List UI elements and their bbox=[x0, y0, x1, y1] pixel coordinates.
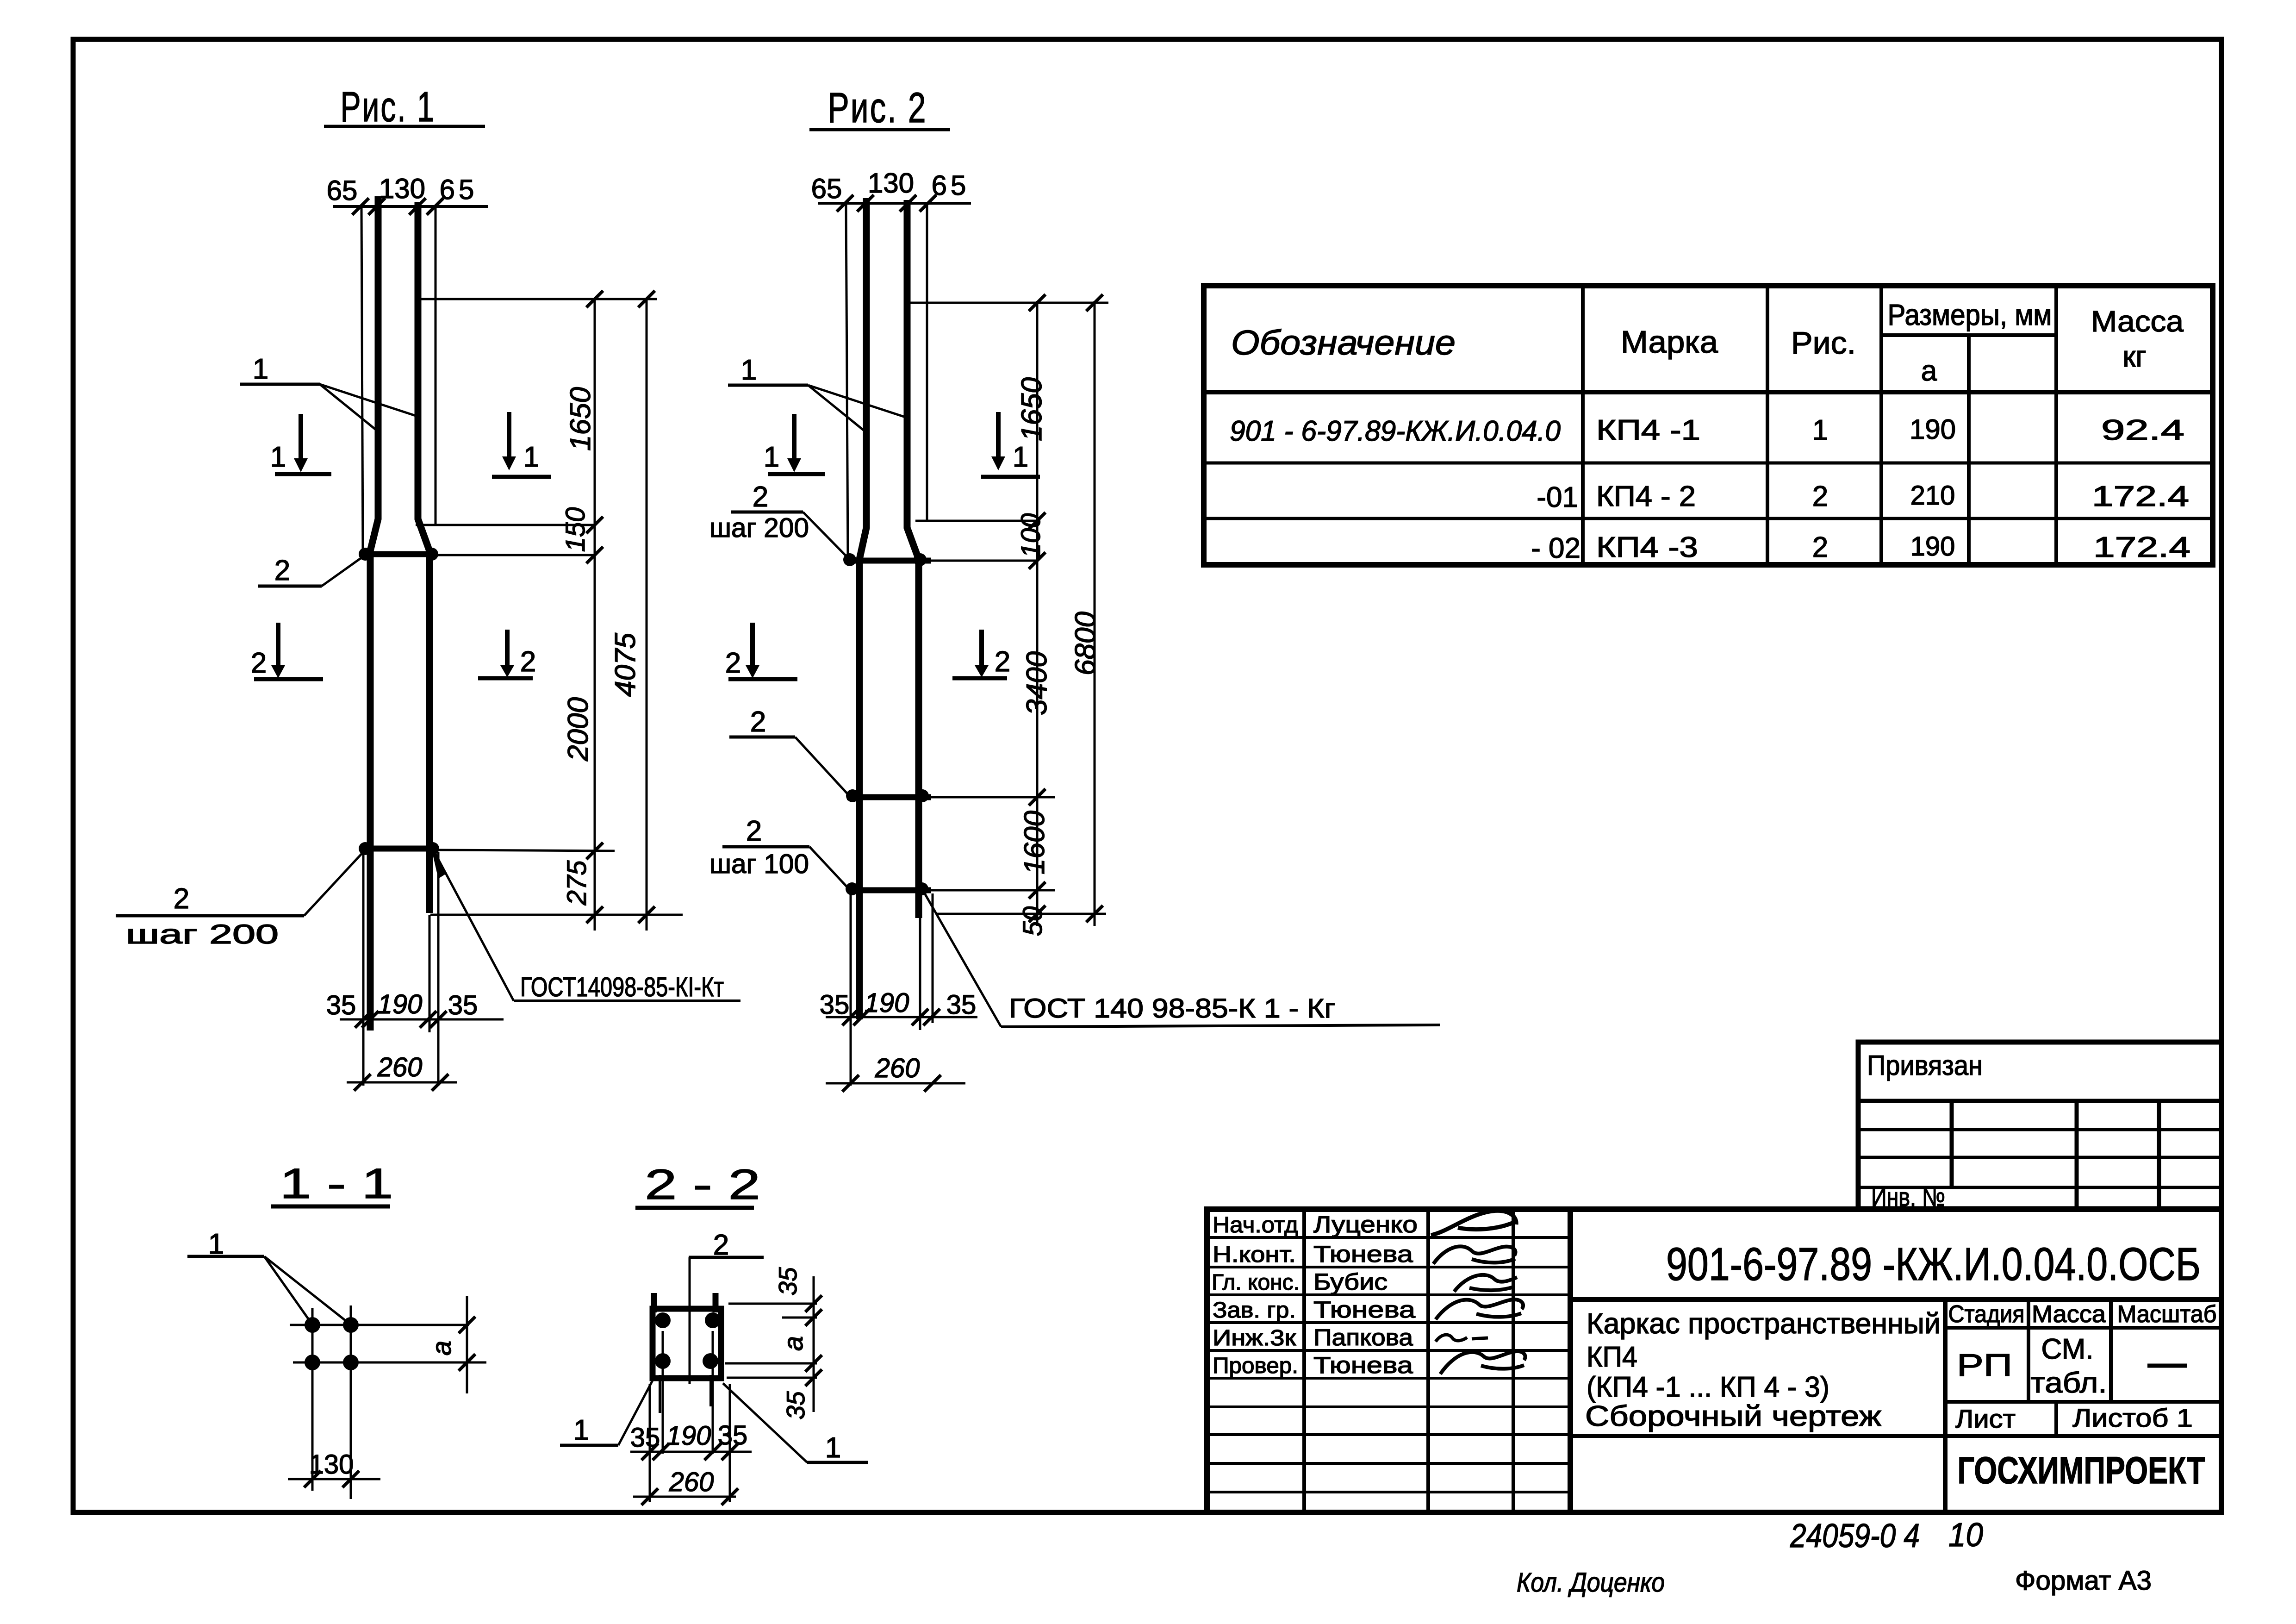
svg-text:2: 2 bbox=[750, 706, 766, 738]
fig2 label 2 middle with leader bbox=[729, 706, 850, 796]
svg-text:табл.: табл. bbox=[2031, 1367, 2107, 1399]
section 2-2 leader to bar axis bbox=[662, 1331, 664, 1454]
svg-text:2: 2 bbox=[753, 481, 768, 513]
svg-text:35: 35 bbox=[773, 1267, 802, 1296]
svg-text:1: 1 bbox=[1013, 441, 1028, 473]
svg-text:6800: 6800 bbox=[1070, 612, 1101, 675]
section 2-2 title bbox=[635, 1161, 760, 1208]
section 2-2 dimension line 260 bbox=[633, 1467, 738, 1505]
fig2 section mark 2 left bbox=[725, 623, 797, 679]
svg-text:24059-0 4: 24059-0 4 bbox=[1790, 1518, 1920, 1555]
fig2 stirrup end extension lines bbox=[850, 893, 852, 1086]
svg-text:Провер.: Провер. bbox=[1213, 1354, 1298, 1378]
svg-text:260: 260 bbox=[669, 1467, 714, 1497]
svg-text:130: 130 bbox=[309, 1449, 354, 1480]
svg-text:Тюнева: Тюнева bbox=[1313, 1241, 1413, 1267]
svg-text:35: 35 bbox=[820, 990, 850, 1020]
privyazan column line 3 bbox=[2157, 1101, 2161, 1209]
privyazan header bottom line bbox=[1858, 1099, 2221, 1103]
spec table column line Марка/Рис bbox=[1766, 286, 1769, 565]
svg-text:901 - 6-97.89-КЖ.И.0.04.0: 901 - 6-97.89-КЖ.И.0.04.0 bbox=[1230, 415, 1561, 447]
fig2 extension line at 100 bbox=[915, 520, 1037, 522]
svg-text:Н.конт.: Н.конт. bbox=[1213, 1243, 1296, 1267]
stadia header row bbox=[1945, 1299, 2221, 1402]
spec table column line Обозначение/Марка bbox=[1581, 286, 1585, 565]
svg-text:Рис.: Рис. bbox=[1791, 325, 1856, 361]
svg-text:(КП4 -1 ... КП 4 - 3): (КП4 -1 ... КП 4 - 3) bbox=[1587, 1371, 1829, 1403]
svg-text:50: 50 bbox=[1018, 906, 1048, 937]
svg-text:Гл. конс.: Гл. конс. bbox=[1212, 1270, 1300, 1295]
svg-text:35: 35 bbox=[326, 990, 356, 1020]
title block name cells bbox=[1313, 1212, 1418, 1378]
svg-text:1: 1 bbox=[523, 441, 539, 473]
svg-text:2: 2 bbox=[725, 647, 741, 679]
svg-text:2 - 2: 2 - 2 bbox=[645, 1161, 760, 1208]
svg-text:Марка: Марка bbox=[1621, 325, 1718, 360]
fig1 extension line top of 1650 bbox=[419, 298, 657, 300]
title block left row lines bbox=[1207, 1237, 1570, 1492]
svg-text:1 - 1: 1 - 1 bbox=[280, 1160, 393, 1207]
svg-text:РП: РП bbox=[1957, 1348, 2012, 1383]
fig1 bottom dimension 35/190/35 bbox=[326, 989, 504, 1028]
svg-text:- 02: - 02 bbox=[1531, 532, 1580, 564]
spec table column line Рис/Размеры bbox=[1879, 286, 1883, 565]
fig1 right bar thin continuation bbox=[429, 915, 431, 1032]
svg-text:Папкова: Папкова bbox=[1313, 1324, 1413, 1350]
fig1 bottom dimension 260 bbox=[347, 1052, 457, 1091]
svg-text:1: 1 bbox=[825, 1432, 841, 1464]
svg-text:Зав. гр.: Зав. гр. bbox=[1213, 1298, 1296, 1323]
fig1 section mark 2 right bbox=[478, 630, 536, 678]
signature Тюнева 2 bbox=[1436, 1299, 1523, 1319]
svg-text:100: 100 bbox=[1016, 513, 1046, 558]
fig2 section mark 1 right bbox=[981, 412, 1040, 477]
svg-text:190: 190 bbox=[378, 989, 423, 1019]
svg-text:Лист: Лист bbox=[1955, 1404, 2016, 1433]
svg-text:Тюнева: Тюнева bbox=[1313, 1297, 1415, 1323]
signature Папкова handnote bbox=[1436, 1335, 1488, 1342]
section 2-2 right bar axis extension bbox=[712, 1331, 714, 1454]
fig1 bottom stirrup bbox=[359, 842, 615, 855]
fig2 section mark 2 right bbox=[952, 630, 1010, 678]
section 1-1 lower bar row line bbox=[293, 1362, 486, 1364]
section 1-1 dimension a bbox=[427, 1296, 475, 1393]
spec table header bottom line bbox=[1204, 390, 2213, 394]
svg-text:35: 35 bbox=[448, 990, 478, 1020]
svg-text:1: 1 bbox=[270, 441, 286, 473]
section 1-1 right bar column line bbox=[350, 1305, 352, 1499]
svg-text:Формат А3: Формат А3 bbox=[2015, 1566, 2152, 1596]
svg-text:1650: 1650 bbox=[565, 387, 597, 451]
fig2 label 2 шаг 200 with leader bbox=[709, 481, 850, 560]
svg-text:Листоб 1: Листоб 1 bbox=[2072, 1403, 2193, 1432]
svg-text:65: 65 bbox=[327, 175, 358, 206]
svg-text:Размеры, мм: Размеры, мм bbox=[1888, 298, 2052, 331]
svg-text:190: 190 bbox=[1910, 531, 1955, 562]
svg-text:Луценко: Луценко bbox=[1313, 1212, 1418, 1237]
fig1 right rebar 1 bbox=[418, 202, 429, 913]
fig1 left extension line bbox=[361, 206, 363, 552]
svg-text:шаг 200: шаг 200 bbox=[709, 513, 809, 543]
svg-text:3400: 3400 bbox=[1021, 651, 1053, 715]
svg-text:Масштаб: Масштаб bbox=[2117, 1301, 2217, 1328]
svg-text:65: 65 bbox=[932, 170, 970, 201]
svg-text:1: 1 bbox=[741, 354, 757, 386]
fig2 left rebar 1 bbox=[859, 198, 866, 1019]
fig1 label 2 шаг 200 bbox=[116, 850, 365, 949]
svg-text:275: 275 bbox=[562, 860, 592, 906]
svg-text:172.4: 172.4 bbox=[2092, 481, 2189, 512]
spec table row line 1 bbox=[1204, 462, 2213, 465]
spec table outer border bbox=[1204, 286, 2213, 565]
svg-text:СМ.: СМ. bbox=[2041, 1333, 2094, 1365]
title block document code cell bbox=[1570, 1297, 2221, 1302]
fig2 label 1 with leaders bbox=[728, 354, 905, 433]
svg-text:Тюнева: Тюнева bbox=[1313, 1352, 1413, 1378]
svg-text:1: 1 bbox=[253, 353, 268, 385]
svg-text:а: а bbox=[1921, 355, 1937, 387]
title block left column line 2 bbox=[1426, 1209, 1430, 1512]
svg-text:1: 1 bbox=[573, 1414, 589, 1446]
spec table row line 2 bbox=[1204, 517, 2213, 520]
stadia values РП СМ.табл — bbox=[1957, 1333, 2187, 1399]
signature Бубис bbox=[1454, 1275, 1517, 1292]
fig2 right bar thin continuation bbox=[919, 918, 921, 1030]
svg-text:92.4: 92.4 bbox=[2101, 414, 2184, 446]
fig1 section mark 1 left bbox=[270, 414, 331, 474]
signature Тюнева 1 bbox=[1433, 1246, 1516, 1264]
fig1 top dimension line 65/130/65 bbox=[327, 173, 488, 215]
fig2 stirrup at taper bbox=[843, 553, 1037, 566]
svg-text:а: а bbox=[778, 1336, 809, 1351]
svg-text:1: 1 bbox=[1812, 414, 1828, 446]
fig2 bottom dimension 260 bbox=[826, 1053, 965, 1092]
svg-text:Обозначение: Обозначение bbox=[1231, 323, 1456, 362]
svg-text:1650: 1650 bbox=[1016, 377, 1048, 441]
privyazan row line 1 bbox=[1858, 1128, 2221, 1131]
section 1-1 dimension 130 bbox=[288, 1449, 380, 1487]
svg-text:Привязан: Привязан bbox=[1867, 1050, 1983, 1081]
spec table subheader line under Размеры мм bbox=[1881, 333, 2056, 337]
fig2 left extension line bbox=[846, 203, 848, 558]
svg-text:190: 190 bbox=[865, 988, 909, 1018]
svg-text:Инж.3к: Инж.3к bbox=[1213, 1326, 1296, 1350]
svg-text:Сборочный чертеж: Сборочный чертеж bbox=[1585, 1400, 1882, 1432]
privyazan row line 2 bbox=[1858, 1156, 2221, 1159]
fig2 total dimension line 6800 bbox=[1086, 294, 1103, 926]
fig1 label 2 upper with leader bbox=[258, 555, 365, 587]
fig1 stirrup end extension lines bbox=[362, 852, 365, 1086]
svg-text:190: 190 bbox=[1910, 414, 1956, 445]
signature Луценко bbox=[1431, 1211, 1516, 1235]
svg-text:2000: 2000 bbox=[562, 697, 594, 762]
fig2 middle stirrup bbox=[846, 789, 1055, 802]
section 2-2 right dimension line 35/a/35 bbox=[773, 1267, 822, 1420]
svg-text:35: 35 bbox=[718, 1420, 748, 1450]
fig2 title Puc.2 bbox=[809, 84, 950, 131]
svg-text:260: 260 bbox=[875, 1053, 920, 1083]
svg-text:КП4 -3: КП4 -3 bbox=[1596, 531, 1698, 563]
title block divider left/right bbox=[1568, 1209, 1573, 1512]
section 1-1 upper bar row line bbox=[290, 1324, 469, 1326]
svg-text:1600: 1600 bbox=[1019, 811, 1051, 874]
svg-text:901-6-97.89 -КЖ.И.0.04.0.ОСБ: 901-6-97.89 -КЖ.И.0.04.0.ОСБ bbox=[1666, 1238, 2201, 1290]
svg-text:130: 130 bbox=[868, 168, 914, 199]
svg-text:35: 35 bbox=[630, 1423, 660, 1453]
svg-text:Бубис: Бубис bbox=[1313, 1269, 1388, 1295]
section 2-2 bar stubs bbox=[654, 1293, 716, 1413]
section 2-2 label 1 right with leader bbox=[723, 1383, 868, 1464]
svg-text:130: 130 bbox=[379, 173, 425, 204]
title block name lines bbox=[1585, 1308, 1941, 1432]
fig2 bottom extension line 50 bbox=[937, 913, 1106, 915]
section 1-1 left bar column line bbox=[311, 1308, 314, 1491]
fig1 total dimension line 4075 bbox=[638, 291, 655, 931]
svg-text:Нач.отд: Нач.отд bbox=[1213, 1213, 1298, 1237]
fig2 lower stirrup bbox=[846, 882, 1055, 895]
fig2 section mark 1 left bbox=[764, 414, 825, 474]
fig1 extension line at 150 bbox=[416, 524, 595, 526]
fig2 weld note GOST 14098-85-K1-Kg bbox=[925, 893, 1440, 1027]
svg-text:ГОСТ 140 98-85-К 1 - Кг: ГОСТ 140 98-85-К 1 - Кг bbox=[1009, 993, 1335, 1024]
svg-text:Рис. 2: Рис. 2 bbox=[828, 84, 927, 131]
svg-text:172.4: 172.4 bbox=[2093, 531, 2190, 563]
section 2-2 label 2 with leader bbox=[689, 1229, 764, 1384]
title block left column line 1 bbox=[1302, 1209, 1306, 1512]
svg-text:35: 35 bbox=[781, 1391, 810, 1420]
fig2 label 2 шаг 100 with leader bbox=[709, 815, 849, 889]
svg-text:2: 2 bbox=[746, 815, 762, 847]
fig1 section mark 2 left bbox=[251, 623, 323, 679]
svg-text:Кол. Доценко: Кол. Доценко bbox=[1517, 1568, 1665, 1598]
spec table column line а split bbox=[1967, 335, 1971, 565]
svg-text:а: а bbox=[427, 1341, 457, 1355]
svg-text:Стадия: Стадия bbox=[1948, 1301, 2025, 1328]
svg-text:260: 260 bbox=[377, 1052, 423, 1082]
title block role labels bbox=[1212, 1213, 1300, 1378]
fig2 bottom dimension 35/190/35 bbox=[820, 988, 977, 1025]
svg-text:10: 10 bbox=[1948, 1517, 1983, 1554]
privyazan row line 3 bbox=[1858, 1186, 2221, 1189]
section 2-2 label 1 left with leader bbox=[560, 1380, 653, 1446]
svg-text:-01: -01 bbox=[1537, 481, 1578, 513]
list row bbox=[1570, 1402, 2221, 1436]
fig1 section mark 1 right bbox=[492, 412, 551, 477]
svg-text:шаг 200: шаг 200 bbox=[126, 919, 279, 949]
fig1 bottom extension line 275 bbox=[430, 914, 683, 916]
title block left column line 3 bbox=[1512, 1209, 1515, 1512]
section 2-2 right extension lines bbox=[725, 1304, 817, 1378]
svg-text:190: 190 bbox=[666, 1421, 711, 1451]
fig1 left rebar 1 bbox=[370, 196, 378, 1031]
svg-text:2: 2 bbox=[1812, 481, 1828, 512]
svg-text:Масса: Масса bbox=[2032, 1301, 2106, 1328]
privyazan column line 2 bbox=[2075, 1101, 2079, 1209]
svg-text:2: 2 bbox=[251, 647, 267, 679]
svg-text:шаг 100: шаг 100 bbox=[709, 849, 809, 879]
svg-text:2: 2 bbox=[995, 646, 1010, 678]
section 2-2 stirrup square bbox=[653, 1309, 721, 1378]
svg-text:Каркас пространственный: Каркас пространственный bbox=[1587, 1308, 1941, 1340]
section 1-1 title bbox=[271, 1160, 393, 1207]
title block outer border bbox=[1207, 1209, 2221, 1512]
fig1 chain dimension line bbox=[586, 291, 603, 931]
fig2 chain dimension line bbox=[1029, 294, 1045, 926]
svg-text:4075: 4075 bbox=[610, 633, 641, 697]
svg-text:65: 65 bbox=[811, 173, 842, 204]
svg-text:Масса: Масса bbox=[2091, 305, 2184, 338]
fig1 right extension line bbox=[435, 206, 437, 526]
section 2-2 rebar dots bbox=[655, 1312, 721, 1369]
svg-text:2: 2 bbox=[520, 646, 536, 678]
fig2 right rebar 1 bbox=[907, 200, 919, 918]
fig2 right extension line bbox=[926, 203, 928, 522]
fig1 label 1 with leaders bbox=[240, 353, 417, 432]
privyazan table outer border bbox=[1858, 1042, 2221, 1209]
title block name/stadia divider bbox=[1943, 1299, 1948, 1512]
svg-text:65: 65 bbox=[440, 174, 478, 205]
svg-text:КП4: КП4 bbox=[1587, 1341, 1637, 1373]
svg-text:35: 35 bbox=[946, 990, 977, 1020]
section 1-1 rebar dots bbox=[305, 1317, 359, 1370]
fig1 weld note GOST 14098-85-K1-Kt bbox=[432, 850, 740, 1002]
svg-text:КП4 - 2: КП4 - 2 bbox=[1596, 481, 1696, 512]
svg-text:2: 2 bbox=[274, 555, 290, 587]
svg-text:Рис. 1: Рис. 1 bbox=[341, 83, 436, 131]
fig1 stirrup at taper bbox=[359, 548, 595, 561]
signature Тюнева 3 bbox=[1440, 1351, 1525, 1374]
section 2-2 dimension line 35/190/35 bbox=[630, 1420, 752, 1460]
section 1-1 label 1 with leaders bbox=[187, 1228, 350, 1324]
svg-text:2: 2 bbox=[1812, 531, 1828, 563]
svg-text:КП4 -1: КП4 -1 bbox=[1596, 414, 1700, 446]
section 2-2 stirrup end extensions bbox=[650, 1384, 730, 1502]
svg-text:ГОСТ14098-85-КI-Кт: ГОСТ14098-85-КI-Кт bbox=[520, 972, 724, 1002]
svg-text:2: 2 bbox=[174, 883, 189, 915]
svg-text:кг: кг bbox=[2122, 340, 2146, 373]
svg-text:210: 210 bbox=[1910, 481, 1955, 511]
fig1 title Puc.1 bbox=[324, 83, 485, 131]
svg-text:ГОСХИМПРОЕКТ: ГОСХИМПРОЕКТ bbox=[1958, 1449, 2205, 1492]
fig2 top dimension line 65/130/65 bbox=[811, 168, 971, 212]
spec table column line Размеры/Масса bbox=[2054, 286, 2058, 565]
fig2 extension line top of 1650 bbox=[910, 302, 1108, 304]
svg-text:1: 1 bbox=[764, 441, 779, 473]
svg-text:150: 150 bbox=[560, 507, 591, 552]
privyazan column line 1 bbox=[1950, 1101, 1954, 1187]
